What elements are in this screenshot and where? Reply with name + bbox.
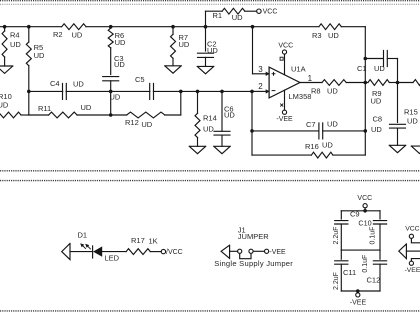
svg-text:UD: UD (203, 124, 214, 133)
node top-rail pin3 (251, 25, 255, 29)
svg-text:R17: R17 (131, 236, 145, 245)
node top-rail R6 (109, 25, 113, 29)
node feedback C1 (364, 57, 368, 61)
svg-text:-VEE: -VEE (350, 299, 367, 306)
resistor R9 (365, 80, 397, 106)
capacitor C8 (371, 83, 406, 146)
wire mid rail seg3 (153, 90, 252, 92)
node mid-rail C6 (220, 90, 224, 94)
wire bypass top rail (341, 210, 380, 212)
wire pin2 stub (252, 90, 266, 92)
node mid-rail R12 (179, 90, 183, 94)
power VCC terminal at R1 (257, 8, 278, 15)
svg-text:Single Supply Jumper: Single Supply Jumper (214, 259, 293, 268)
svg-text:2.2uF: 2.2uF (333, 272, 340, 290)
svg-text:UD: UD (327, 119, 338, 128)
capacitor C2 (198, 27, 219, 67)
svg-text:R15: R15 (404, 107, 418, 116)
pin 2 arrowhead (266, 89, 276, 93)
resistor R16 (252, 141, 365, 158)
op-amp VEE pin 4 (276, 90, 293, 123)
power VCC terminal at R17 (161, 249, 183, 256)
node lower-rail C3 column (109, 113, 113, 117)
svg-text:UD: UD (207, 46, 218, 55)
svg-text:UD: UD (371, 96, 382, 105)
port arrow at D1 (62, 244, 70, 260)
resistor R17 (126, 236, 158, 254)
capacitor C12 (362, 250, 387, 291)
svg-text:VCC: VCC (405, 226, 419, 233)
node top-rail R7 (171, 25, 175, 29)
svg-text:D1: D1 (78, 231, 88, 240)
LED light arrows (80, 243, 91, 249)
svg-text:C8: C8 (373, 114, 383, 123)
svg-text:UD: UD (34, 51, 45, 60)
pin 1 label (308, 74, 313, 83)
node bypass bottom (356, 289, 360, 293)
pin 2 label (258, 82, 263, 91)
svg-text:UD: UD (232, 13, 243, 22)
svg-text:/VCC: /VCC (166, 249, 183, 256)
svg-text:VCC: VCC (357, 195, 372, 202)
svg-text:C10: C10 (358, 218, 371, 227)
wire arrow to LED (70, 251, 93, 253)
svg-text:3: 3 (258, 65, 263, 74)
svg-text:R14: R14 (203, 113, 217, 122)
wire VEE hook right edge (411, 259, 420, 262)
svg-text:C9: C9 (350, 210, 360, 219)
wire mid rail seg1 (29, 90, 63, 92)
wire LED to R17 (102, 251, 126, 253)
svg-text:U1A: U1A (291, 64, 306, 73)
ground under R4 (0, 66, 13, 73)
label J1 (238, 225, 269, 240)
resistor R5 (26, 27, 45, 92)
svg-text:UD: UD (10, 40, 21, 49)
ground under C6 (214, 146, 230, 153)
svg-text:UD: UD (407, 116, 418, 125)
wire R17 to VCC (150, 251, 161, 253)
node top-rail R4 (3, 25, 7, 29)
svg-text:-VEE: -VEE (276, 116, 293, 123)
wire top rail left segment (0, 26, 62, 28)
resistor R15 partial (404, 80, 420, 126)
capacitor C4 (50, 79, 84, 99)
svg-text:UD: UD (322, 141, 333, 150)
node bypass top (363, 209, 367, 213)
ground under R7 (165, 66, 181, 73)
svg-text:2.2uF: 2.2uF (333, 227, 340, 245)
resistor R8 (311, 80, 346, 96)
node pin2-column C7 (250, 129, 254, 133)
resistor R3 (312, 24, 341, 40)
svg-text:C7: C7 (306, 120, 316, 129)
svg-text:-VEE: -VEE (269, 249, 286, 256)
svg-text:R11: R11 (38, 104, 51, 113)
wire pin3 feed (253, 27, 266, 74)
wire R8 to node (346, 82, 365, 84)
resistor R1 (206, 8, 257, 26)
svg-text:UD: UD (224, 111, 235, 120)
ground under C2 (197, 66, 213, 73)
resistor R4 (2, 27, 21, 66)
resistor R6 (108, 27, 126, 75)
capacitor C1 (357, 51, 398, 83)
port arrow right edge (399, 244, 420, 259)
svg-text:UD: UD (0, 101, 9, 110)
resistor R10 (0, 92, 29, 118)
pin 3 arrowhead (266, 72, 276, 76)
node output R9 (396, 81, 400, 85)
svg-text:VCC: VCC (278, 42, 293, 49)
label single supply jumper (214, 259, 293, 268)
capacitor C10 (358, 211, 386, 250)
capacitor C7 (252, 119, 365, 138)
svg-text:R4: R4 (10, 31, 20, 40)
svg-text:R1: R1 (213, 11, 223, 20)
svg-text:C5: C5 (135, 75, 145, 84)
svg-text:0.1uF: 0.1uF (369, 227, 376, 245)
node mid-rail C3 (109, 90, 113, 94)
svg-text:UD: UD (327, 86, 338, 95)
diode D1 LED (78, 231, 120, 263)
wire feedback column (364, 27, 366, 155)
wire VCC hook right edge (411, 238, 420, 242)
capacitor C5 (110, 75, 154, 102)
pin 3 label (258, 65, 263, 74)
jumper shunt (240, 253, 251, 258)
svg-text:UD: UD (73, 79, 84, 88)
node feedback C7 (364, 129, 368, 133)
svg-text:C11: C11 (343, 268, 356, 277)
resistor R11 (29, 103, 111, 118)
wire bypass bottom rail (341, 290, 380, 292)
ground at right edge (411, 146, 420, 153)
wire op-amp output (300, 82, 322, 84)
svg-text:UD: UD (114, 60, 125, 69)
port arrow at J1 (221, 245, 230, 258)
resistor R2 (53, 24, 86, 40)
node feedback R8 (364, 81, 368, 85)
svg-text:2: 2 (258, 82, 263, 91)
power VEE terminal at J1 (265, 249, 287, 256)
svg-text:UD: UD (374, 64, 385, 73)
power VCC terminal bypass (357, 195, 372, 211)
svg-text:UD: UD (371, 125, 382, 134)
node mid-rail R5 (27, 90, 31, 94)
wire J1 pin2 to VEE (253, 250, 264, 252)
node top-rail C2 (204, 25, 208, 29)
svg-text:UD: UD (81, 103, 92, 112)
resistor R12 (111, 112, 181, 129)
resistor R14 (195, 91, 217, 146)
capacitor C11 (333, 250, 356, 291)
wire R5 lower riser (28, 91, 30, 115)
svg-text:C1: C1 (357, 64, 367, 73)
svg-text:R16: R16 (305, 142, 319, 151)
svg-text:UD: UD (141, 120, 152, 129)
node top-rail R5 (27, 25, 31, 29)
svg-text:-VEE: -VEE (405, 267, 420, 274)
svg-text:UD: UD (328, 31, 339, 40)
svg-text:C12: C12 (367, 276, 381, 285)
svg-text:1: 1 (308, 74, 313, 83)
connector J1 pin 1 (238, 249, 242, 253)
wire top rail middle segment (86, 26, 319, 28)
ground under C8 (389, 145, 405, 152)
wire output to edge (398, 82, 414, 84)
wire C3 column lower riser (110, 91, 112, 115)
svg-text:R8: R8 (311, 86, 321, 95)
svg-text:R2: R2 (53, 30, 63, 39)
wire pin2 column (251, 91, 253, 155)
svg-text:JUMPER: JUMPER (238, 232, 269, 241)
capacitor C6 (214, 91, 235, 146)
capacitor C3 (103, 54, 126, 91)
svg-text:VCC: VCC (263, 8, 278, 15)
svg-text:UD: UD (115, 38, 126, 47)
node mid-rail R14 (196, 90, 200, 94)
svg-text:UD: UD (179, 40, 190, 49)
wire top rail right segment (341, 26, 365, 28)
wire bypass mid rail (341, 249, 380, 251)
op-amp U1A (269, 64, 311, 101)
svg-text:0.1uF: 0.1uF (362, 255, 369, 273)
svg-text:LM358: LM358 (289, 92, 312, 101)
wire arrow to J1 pin1 (230, 250, 238, 252)
svg-text:R3: R3 (312, 31, 322, 40)
connector J1 pin 2 (249, 249, 253, 253)
op-amp VCC pin 8 (278, 42, 293, 74)
power VCC terminal right edge (405, 226, 419, 239)
resistor R7 (171, 27, 190, 66)
svg-text:LED: LED (105, 253, 120, 262)
wire mid rail seg2 (66, 90, 150, 92)
node mid-rail pin2 (250, 90, 254, 94)
svg-text:1K: 1K (149, 236, 158, 245)
svg-text:UD: UD (72, 30, 83, 39)
svg-text:C4: C4 (50, 79, 60, 88)
wire R12 riser (180, 91, 182, 115)
power VEE terminal bypass (350, 291, 367, 306)
capacitor C9 (333, 210, 360, 251)
svg-text:R12: R12 (125, 118, 139, 127)
power VEE terminal right edge (405, 261, 420, 274)
ground under R14 (189, 146, 205, 153)
